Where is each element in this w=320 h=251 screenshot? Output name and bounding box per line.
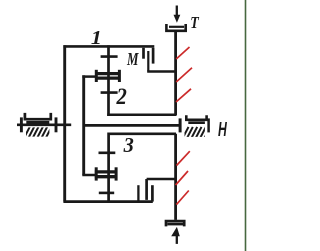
svg-text:2: 2 [116,84,127,110]
svg-text:3: 3 [123,133,134,157]
svg-text:1: 1 [91,27,102,49]
svg-text:T: T [190,13,199,32]
svg-text:H: H [218,119,227,141]
svg-text:M: M [126,49,139,69]
